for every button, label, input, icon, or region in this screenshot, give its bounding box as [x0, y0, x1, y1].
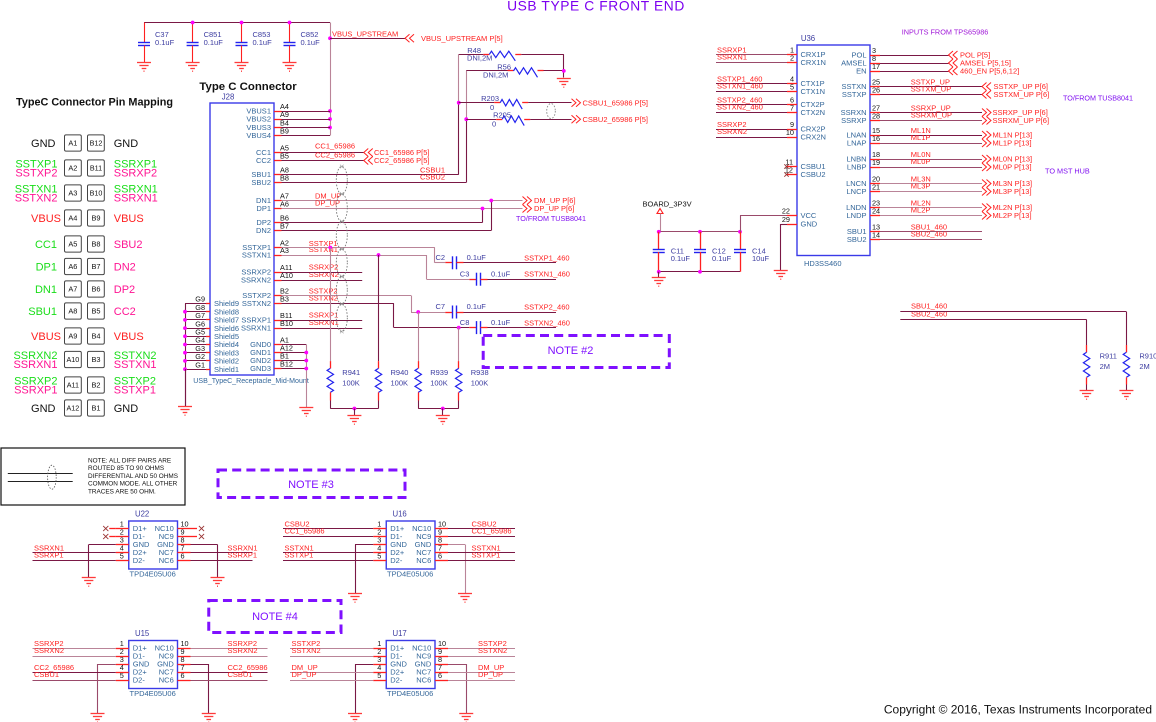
no-connect pin 10 U22	[191, 528, 198, 530]
pin 2 D1- U22	[116, 536, 129, 538]
wire SSRXN2	[282, 280, 363, 282]
svg-text:TypeC Connector Pin Mapping: TypeC Connector Pin Mapping	[16, 97, 173, 109]
svg-text:COMMON MODE. ALL OTHER: COMMON MODE. ALL OTHER	[88, 481, 178, 488]
svg-text:TPD4E05U06: TPD4E05U06	[387, 570, 433, 579]
wire CSBU2 vertical	[466, 71, 468, 119]
svg-text:Type C Connector: Type C Connector	[199, 81, 297, 93]
svg-text:A8: A8	[68, 307, 77, 316]
pin 15 LNAN U36	[870, 135, 880, 137]
svg-text:R939: R939	[430, 368, 448, 377]
pin 4 D2+ U17	[373, 672, 386, 674]
wire DM_UP	[282, 200, 523, 202]
off-page connector 460_EN P[5,6,12]	[949, 67, 958, 75]
svg-text:100K: 100K	[471, 379, 489, 388]
pin map row A9/B4	[31, 328, 144, 344]
svg-text:SSRXM_UP P[6]: SSRXM_UP P[6]	[993, 116, 1050, 125]
svg-text:C7: C7	[436, 302, 446, 311]
svg-text:0.1uF: 0.1uF	[155, 38, 175, 47]
svg-text:U22: U22	[135, 510, 149, 519]
pin map row A12/B1	[31, 400, 138, 416]
svg-text:6: 6	[181, 671, 185, 680]
pin 18 LNBN U36	[870, 159, 880, 161]
ic U36 body	[797, 45, 870, 256]
pin 8 GND U15	[178, 664, 191, 666]
svg-text:CC2: CC2	[114, 306, 136, 318]
pin A12 GND1	[274, 352, 282, 354]
svg-text:A7: A7	[68, 285, 77, 294]
junction shield G3	[183, 351, 187, 355]
svg-text:D2-: D2-	[133, 676, 146, 685]
svg-text:SSTXP1: SSTXP1	[472, 550, 501, 559]
svg-text:B10: B10	[90, 189, 103, 198]
no-connect pin 1 U22	[109, 528, 116, 530]
svg-text:CSBU1: CSBU1	[34, 670, 59, 679]
svg-text:R911: R911	[1100, 352, 1117, 361]
off-page connector SSTXP_UP P[6]	[982, 83, 991, 91]
pin 3 GND U15	[116, 664, 129, 666]
svg-text:10uF: 10uF	[752, 254, 770, 263]
junction shield G1	[183, 367, 187, 371]
svg-text:SSRXN1: SSRXN1	[309, 318, 339, 327]
svg-text:SBU2_460: SBU2_460	[911, 309, 947, 318]
pin 5 CTX1N U36	[787, 91, 797, 93]
svg-text:SSTXP2_460: SSTXP2_460	[524, 302, 569, 311]
svg-text:TPD4E05U06: TPD4E05U06	[387, 689, 433, 698]
svg-text:ROUTED 85 TO 90 OHMS: ROUTED 85 TO 90 OHMS	[88, 465, 164, 472]
svg-text:14: 14	[872, 231, 880, 240]
pin 4 D2+ U16	[373, 552, 386, 554]
svg-text:19: 19	[872, 158, 880, 167]
junction VBUS pin	[328, 126, 332, 130]
ground U16 left	[348, 594, 362, 603]
wire SSRXP1	[282, 320, 363, 322]
no-connect pin 2 U22	[109, 536, 116, 538]
svg-text:J28: J28	[222, 93, 235, 102]
wire CSBU1 U15 right	[191, 680, 268, 682]
pin 7 NC7 U15	[178, 672, 191, 674]
svg-text:B3: B3	[91, 355, 100, 364]
svg-text:R941: R941	[342, 368, 360, 377]
svg-text:26: 26	[872, 86, 880, 95]
pin map row A4/B9	[31, 210, 144, 226]
pin 1 D1+ U17	[373, 648, 386, 650]
wire VBUS top rail	[144, 22, 330, 24]
svg-text:CSBU2_65986 P[5]: CSBU2_65986 P[5]	[583, 115, 648, 124]
pin G5 Shield5	[206, 336, 210, 338]
pin 3 GND U16	[373, 544, 386, 546]
svg-text:D2-: D2-	[390, 676, 403, 685]
pin G2 Shield2	[206, 360, 210, 362]
svg-text:DNI,2M: DNI,2M	[483, 71, 508, 80]
wire shield bus vertical	[185, 304, 187, 407]
off-page connector ML3N P[13]	[982, 180, 991, 188]
svg-text:29: 29	[782, 215, 790, 224]
pin A6 DP1	[274, 208, 282, 210]
off-page connector ML2N P[13]	[982, 204, 991, 212]
svg-text:SSTXN2: SSTXN2	[15, 193, 58, 205]
svg-text:NOTE #2: NOTE #2	[548, 345, 594, 357]
pin 4 D2+ U15	[116, 672, 129, 674]
pin 12 CSBU2 U36	[787, 174, 797, 176]
wire VBUS pin	[282, 127, 331, 129]
wire GND0 pin	[282, 344, 307, 346]
pin B1 GND2	[274, 360, 282, 362]
svg-text:16: 16	[872, 134, 880, 143]
pin map row A11/B2	[14, 376, 156, 397]
wire CSBU2 U16 left	[283, 528, 373, 530]
ic U22 body	[129, 521, 178, 569]
junction SSTXP1/R941	[328, 246, 332, 250]
wire shield G5	[185, 336, 206, 338]
svg-text:SSTXN1: SSTXN1	[242, 251, 271, 260]
junction 3P3V rail	[657, 230, 661, 234]
wire CSBU1 vertical	[458, 54, 460, 102]
svg-text:DP_UP: DP_UP	[478, 670, 503, 679]
wire SSTXN1	[282, 255, 427, 257]
pin 9 NC9 U16	[435, 536, 448, 538]
svg-text:R205: R205	[493, 111, 511, 120]
svg-text:A4: A4	[68, 214, 77, 223]
svg-text:SSRXM_UP: SSRXM_UP	[911, 110, 952, 119]
junction DM_UP/DN2	[489, 199, 493, 203]
off-page connector ML2P P[13]	[982, 212, 991, 220]
wire DM_UP U17 left	[290, 672, 373, 674]
pin 14 SBU2 U36	[870, 239, 880, 241]
wire SBU2_460	[900, 319, 1086, 321]
pin 1 D1+ U15	[116, 648, 129, 650]
svg-text:A12: A12	[67, 404, 80, 413]
svg-text:SBU2_460: SBU2_460	[911, 229, 947, 238]
off-page connector SSRXM_UP P[6]	[982, 117, 991, 125]
pin 11 CSBU1 U36	[787, 166, 797, 168]
pin A7 DN1	[274, 200, 282, 202]
svg-text:100K: 100K	[430, 379, 448, 388]
wire shield G4	[185, 344, 206, 346]
capacitor C853	[235, 23, 273, 72]
svg-text:SSRXN1: SSRXN1	[114, 193, 158, 205]
svg-text:SSTXM_UP P[6]: SSTXM_UP P[6]	[994, 90, 1050, 99]
svg-text:D2-: D2-	[390, 556, 403, 565]
svg-text:ML2P: ML2P	[911, 205, 931, 214]
pin map row A2/B11	[15, 159, 157, 180]
resistor R56	[466, 70, 507, 72]
wire R941/R940 gnd rail	[330, 408, 378, 410]
svg-text:ML0P P[13]: ML0P P[13]	[993, 163, 1032, 172]
svg-text:5: 5	[377, 552, 381, 561]
svg-text:DN2: DN2	[256, 226, 271, 235]
wire DP2 to DP_UP	[282, 222, 483, 224]
wire shield G8	[185, 311, 206, 313]
wire GND2 pin	[282, 360, 307, 362]
pin 5 D2- U16	[373, 560, 386, 562]
ground U36	[774, 271, 788, 280]
wire shield G1	[185, 369, 206, 371]
svg-text:D2-: D2-	[133, 556, 146, 565]
pin 10 NC10 U22	[178, 528, 191, 530]
off-page connector CC2_65986	[364, 157, 373, 165]
wire CC1_65986 U16 right	[448, 536, 515, 538]
svg-text:0.1uF: 0.1uF	[712, 254, 732, 263]
svg-text:24: 24	[872, 207, 880, 216]
pin 9 NC9 U22	[178, 536, 191, 538]
pin B5 CC2	[274, 160, 282, 162]
svg-text:A6: A6	[68, 262, 77, 271]
pin 25 SSTXN U36	[870, 86, 880, 88]
capacitor C2	[445, 262, 452, 264]
pin A1 GND0	[274, 344, 282, 346]
svg-text:R940: R940	[391, 368, 409, 377]
junction DP_UP/DP2	[481, 207, 485, 211]
svg-text:B4: B4	[91, 332, 100, 341]
junction shield G6	[183, 326, 187, 330]
resistor R940	[378, 255, 380, 361]
pin map row A8/B5	[28, 303, 136, 319]
wire SSTXN2 U17 right	[448, 656, 515, 658]
svg-text:5: 5	[790, 83, 794, 92]
svg-text:2M: 2M	[1100, 362, 1110, 371]
svg-text:SSRXN1: SSRXN1	[717, 52, 747, 61]
resistor R938	[458, 328, 460, 362]
pin 5 D2- U17	[373, 680, 386, 682]
off-page connector ML1P P[13]	[982, 139, 991, 147]
pin 6 CTX2P U36	[787, 104, 797, 106]
pin 1 CRX1P U36	[787, 54, 797, 56]
wire SSRXN1	[282, 328, 363, 330]
pin 3 POL U36	[870, 55, 880, 57]
junction VBUS/C852	[288, 21, 292, 25]
wire U16 gnd right	[448, 544, 465, 546]
pin 1 D1+ U22	[116, 528, 129, 530]
svg-text:SSTXP1: SSTXP1	[285, 550, 314, 559]
svg-text:DP_UP P[6]: DP_UP P[6]	[534, 204, 574, 213]
wire GND3 pin	[282, 368, 307, 370]
wire CSBU2 horizontal	[282, 182, 467, 184]
wire C11 gnd lead	[658, 272, 660, 278]
ground U15 right	[202, 714, 216, 722]
pin 8 GND U17	[435, 664, 448, 666]
svg-text:A1: A1	[68, 139, 77, 148]
off-page connector DM_UP	[523, 197, 532, 205]
capacitor C12	[700, 232, 702, 249]
resistor R939	[418, 312, 420, 361]
svg-text:0.1uF: 0.1uF	[301, 38, 321, 47]
pin 21 LNCP U36	[870, 191, 880, 193]
svg-text:ML3P P[13]: ML3P P[13]	[993, 187, 1032, 196]
svg-text:SSTXP1: SSTXP1	[114, 385, 156, 397]
junction VBUS_UPSTREAM tap	[328, 36, 332, 40]
wire SSTXN1 U16 right	[448, 552, 515, 554]
svg-text:SSRXN1: SSRXN1	[241, 324, 271, 333]
svg-text:BOARD_3P3V: BOARD_3P3V	[643, 199, 692, 208]
svg-text:6: 6	[181, 552, 185, 561]
svg-text:SSTXN2: SSTXN2	[478, 646, 507, 655]
wire CC2	[282, 160, 364, 162]
ground U22 right	[211, 578, 225, 587]
pin 24 LNDP U36	[870, 215, 880, 217]
svg-text:SSTXN1: SSTXN1	[309, 245, 338, 254]
ground C11	[652, 278, 666, 287]
pin map row A7/B6	[35, 281, 135, 297]
wire VCC riser	[740, 216, 742, 232]
pin B8 SBU2	[274, 182, 282, 184]
junction shield G8	[183, 310, 187, 314]
pin 23 LNDN U36	[870, 207, 880, 209]
junction GND2 bus	[304, 359, 308, 363]
svg-text:10: 10	[786, 128, 794, 137]
pin 2 D1- U15	[116, 656, 129, 658]
svg-text:NC6: NC6	[159, 556, 174, 565]
pin B12 GND3	[274, 368, 282, 370]
svg-text:100K: 100K	[391, 379, 409, 388]
pin map row A1/B12	[31, 135, 138, 151]
svg-text:NC6: NC6	[416, 676, 431, 685]
svg-text:A9: A9	[68, 332, 77, 341]
pin 2 D1- U16	[373, 536, 386, 538]
junction R56/ground	[562, 69, 566, 73]
svg-text:GND: GND	[114, 403, 139, 415]
junction CSBU2/R205	[464, 117, 468, 121]
svg-text:21: 21	[872, 183, 880, 192]
pin A3 SSTXN1	[274, 255, 282, 257]
wire C2 left	[435, 262, 446, 264]
pin 8 GND U22	[178, 544, 191, 546]
svg-text:6: 6	[438, 552, 442, 561]
ground R910	[1119, 391, 1133, 400]
pin 9 NC9 U15	[178, 656, 191, 658]
svg-text:VBUS: VBUS	[114, 213, 144, 225]
junction R941/R940 gnd	[353, 407, 357, 411]
pin 9 NC9 U17	[435, 656, 448, 658]
ic U17 body	[386, 641, 435, 689]
svg-text:USB TYPE C FRONT END: USB TYPE C FRONT END	[507, 0, 685, 14]
svg-text:SSTXN2: SSTXN2	[309, 293, 338, 302]
svg-text:A2: A2	[68, 164, 77, 173]
svg-text:TRACES ARE 50 OHM.: TRACES ARE 50 OHM.	[88, 488, 156, 495]
svg-text:SSTXP1_460: SSTXP1_460	[524, 253, 569, 262]
twisted pair symbol CSBU	[547, 104, 556, 119]
svg-text:SSRXP2: SSRXP2	[114, 168, 157, 180]
off-page connector SSRXP_UP P[6]	[982, 109, 991, 117]
pin 5 D2- U15	[116, 680, 129, 682]
junction SSTXN1/R940	[377, 253, 381, 257]
junction R939/R938 gnd	[441, 407, 445, 411]
note box NOTE #2	[483, 336, 669, 368]
svg-text:B6: B6	[91, 285, 100, 294]
wire U17 gnd right	[448, 664, 466, 666]
junction GND1 bus	[304, 351, 308, 355]
svg-text:17: 17	[872, 62, 880, 71]
svg-text:5: 5	[120, 552, 124, 561]
wire gnd lead	[354, 409, 356, 416]
junction VBUS/C851	[191, 21, 195, 25]
pin 17 EN U36	[870, 71, 880, 73]
resistor R205	[466, 119, 496, 121]
pin 8 AMSEL U36	[870, 63, 880, 65]
pin map row A5/B8	[35, 236, 143, 252]
svg-text:SSTXN1_460: SSTXN1_460	[524, 269, 570, 278]
svg-text:CRX2N: CRX2N	[801, 133, 826, 142]
note box NOTE #3	[218, 470, 405, 498]
pin B2 SSTXP2	[274, 295, 282, 297]
svg-text:B2: B2	[91, 381, 100, 390]
svg-text:12: 12	[785, 166, 793, 175]
svg-text:ML0P: ML0P	[911, 157, 931, 166]
pin G8 Shield8	[206, 311, 210, 313]
wire DP_UP U17 right	[448, 680, 515, 682]
wire CC1	[282, 152, 364, 154]
pin 6 NC6 U22	[178, 560, 191, 562]
svg-text:U17: U17	[392, 629, 406, 638]
pin 29 GND U36	[787, 224, 797, 226]
svg-text:GND: GND	[801, 220, 818, 229]
svg-text:0.1uF: 0.1uF	[491, 318, 511, 327]
svg-text:DP1: DP1	[256, 204, 271, 213]
svg-text:CTX1N: CTX1N	[801, 87, 826, 96]
junction gnd rail C12	[698, 270, 702, 274]
pin 28 SSRXP U36	[870, 120, 880, 122]
pin 2 CRX1N U36	[787, 62, 797, 64]
svg-text:B1: B1	[91, 404, 100, 413]
pin 6 NC6 U17	[435, 680, 448, 682]
svg-text:0: 0	[492, 120, 496, 129]
svg-text:SSTXN1: SSTXN1	[114, 359, 157, 371]
ground R939/R938	[436, 416, 450, 425]
pin 7 NC7 U16	[435, 552, 448, 554]
svg-text:GND: GND	[114, 138, 139, 150]
wire shield G2	[185, 360, 206, 362]
ground R911	[1080, 391, 1094, 400]
resistor R910	[1126, 345, 1128, 352]
junction 3P3V rail	[698, 230, 702, 234]
pin 8 GND U16	[435, 544, 448, 546]
off-page connector CSBU2_65986	[572, 115, 581, 123]
svg-text:6: 6	[438, 671, 442, 680]
wire R48/R56 to ground	[563, 54, 565, 77]
svg-text:VBUS_UPSTREAM: VBUS_UPSTREAM	[332, 29, 398, 38]
resistor R203	[459, 102, 494, 104]
off-page connector SSTXM_UP P[6]	[982, 91, 991, 99]
svg-text:SSRXP1: SSRXP1	[14, 385, 57, 397]
svg-text:0.1uF: 0.1uF	[467, 253, 487, 262]
svg-text:VBUS_UPSTREAM P[5]: VBUS_UPSTREAM P[5]	[421, 34, 503, 43]
off-page connector VBUS_UPSTREAM	[405, 34, 414, 42]
wire R939/R938 gnd rail	[418, 408, 459, 410]
pin A10 SSRXN2	[274, 280, 282, 282]
wire VBUS pin	[282, 111, 331, 113]
svg-text:5: 5	[120, 671, 124, 680]
wire VBUS pin	[282, 119, 331, 121]
svg-text:CC2_65986 P[5]: CC2_65986 P[5]	[374, 156, 429, 165]
svg-text:VBUS: VBUS	[31, 331, 61, 343]
wire SSTXP1 U16 right	[448, 560, 515, 562]
svg-text:ML3P: ML3P	[911, 181, 931, 190]
junction gnd rail C11	[657, 270, 661, 274]
off-page connector ML0P P[13]	[982, 163, 991, 171]
svg-text:0.1uF: 0.1uF	[253, 38, 273, 47]
wire SSTXP2 U17 left	[290, 648, 373, 650]
svg-text:NC6: NC6	[416, 556, 431, 565]
wire CSBU2 U16 right	[448, 528, 515, 530]
svg-text:GND: GND	[31, 138, 56, 150]
pin 10 NC10 U17	[435, 648, 448, 650]
capacitor C37	[137, 23, 175, 72]
svg-text:DN1: DN1	[35, 284, 57, 296]
svg-text:2M: 2M	[1139, 362, 1149, 371]
pin 27 SSRXN U36	[870, 112, 880, 114]
svg-text:SSTXP: SSTXP	[842, 90, 867, 99]
no-connect pin 9 U22	[191, 536, 198, 538]
note box NOTE #4	[209, 601, 341, 633]
